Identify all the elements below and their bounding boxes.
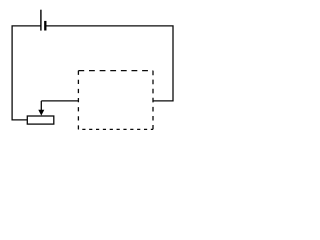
rheostat R1: slider arrow shaft	[40, 101, 42, 112]
dashed box: bottom edge	[78, 128, 153, 130]
dashed box: left edge	[77, 71, 79, 130]
rheostat R1: slider arrow head	[38, 110, 44, 116]
dashed box: top edge	[78, 70, 153, 72]
battery B1: short thick plate	[44, 21, 46, 31]
wire: from battery long plate left, down left side, to rheostat body	[12, 26, 41, 120]
battery B1: long thin plate	[40, 10, 42, 31]
dashed box: right edge	[152, 71, 154, 130]
wire: from dashed box left edge to rheostat slider corner	[41, 100, 78, 102]
rheostat R1: resistor body	[27, 116, 54, 124]
wire: from battery short plate right, down right side, into dashed box right edge	[45, 26, 173, 101]
